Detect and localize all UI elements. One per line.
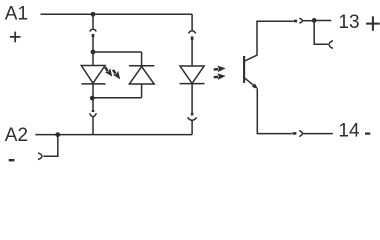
wire emitter down to 14 path — [257, 89, 292, 134]
wire D2 branch down — [141, 52, 143, 98]
connector pin at 13 (module side) — [294, 20, 298, 23]
node split — [91, 50, 96, 55]
connector socket upper-mid (base side) — [188, 31, 195, 34]
wire bottom connecting (merge rail) — [93, 97, 142, 99]
polarity - (A2) — [9, 159, 15, 161]
wire merge to lower pin — [92, 98, 94, 111]
diode D2 triangle — [129, 67, 154, 84]
polarity + (13) — [366, 16, 380, 30]
LED D1 triangle — [81, 66, 105, 84]
node merge — [90, 96, 95, 101]
wire stub from node 13 — [314, 21, 328, 45]
phototransistor Q1 emitter — [245, 78, 255, 86]
wire split to D2 branch — [93, 51, 142, 53]
svg-text:A1: A1 — [5, 4, 28, 25]
svg-text:14: 14 — [338, 121, 360, 142]
connector socket lower-mid (A2 side) — [188, 117, 197, 120]
connector socket unmated (aux contact) — [329, 41, 333, 49]
wire optocoupler LED down — [191, 84, 193, 113]
LED D1 light arrow 1 — [103, 65, 115, 79]
optocoupler LED triangle — [180, 66, 204, 83]
wire pin to optocoupler LED — [191, 40, 193, 66]
svg-text:13: 13 — [338, 12, 359, 33]
connector pin at 14 (module side) — [293, 132, 297, 135]
wire split to LED D1 — [92, 52, 94, 66]
connector pin upper-left (module side) — [92, 34, 95, 37]
connector socket unmated (minus terminal) — [38, 153, 42, 160]
connector socket at 14 (terminal side) — [299, 130, 302, 136]
wire pin to split node — [92, 37, 94, 52]
node junction on A1 rail — [91, 12, 96, 17]
wire socket to A2 rail — [92, 117, 94, 134]
wire socket to A2 rail corner — [191, 121, 193, 135]
wire left branch upper — [92, 14, 94, 28]
connector socket upper-left (base side) — [90, 29, 97, 31]
wire minus stub — [43, 135, 57, 157]
wire node 13 to terminal — [314, 20, 331, 22]
optocoupler light arrow 1 — [213, 65, 225, 73]
wire socket to node 13 — [303, 20, 314, 22]
node 13 — [312, 18, 317, 23]
optocoupler light arrow 2 — [213, 73, 225, 81]
node A2 minus stub — [55, 132, 60, 137]
phototransistor Q1 base bar — [243, 56, 245, 83]
connector pin lower-left (module side) — [92, 110, 95, 112]
wire socket to terminal 14 — [303, 133, 333, 135]
svg-text:A2: A2 — [5, 125, 28, 146]
polarity + (A1) — [10, 32, 21, 43]
optocoupler LED cathode bar — [180, 83, 205, 85]
connector pin lower-mid (module side) — [191, 113, 194, 116]
wire mid branch upper (from A1 rail corner) — [191, 14, 193, 30]
diode D2 cathode bar — [129, 65, 155, 67]
connector pin upper-mid (module side) — [191, 36, 194, 40]
wire A1 rail — [41, 13, 193, 15]
phototransistor Q1 emitter arrowhead — [252, 83, 258, 89]
LED D1 light arrow 2 — [110, 68, 122, 82]
LED D1 cathode bar — [82, 83, 106, 85]
wire LED D1 to merge node — [92, 84, 94, 98]
phototransistor Q1 collector — [245, 21, 294, 61]
wire A2 rail — [35, 134, 192, 136]
connector socket lower-left (A2 side) — [90, 113, 97, 116]
connector socket at 13 (terminal side) — [299, 18, 302, 23]
polarity - (14) — [365, 133, 370, 135]
